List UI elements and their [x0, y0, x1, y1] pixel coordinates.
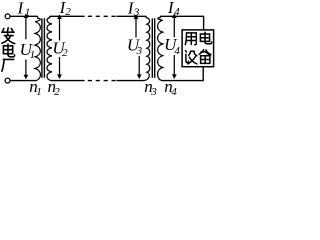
terminal circle top-left [5, 14, 10, 19]
svg-text:4: 4 [174, 45, 180, 57]
power plant text 电 (drawn strokes) [3, 44, 14, 57]
voltage arrow U3 head up [134, 14, 139, 19]
voltage arrow U4 head up [172, 13, 177, 18]
voltage arrow U2 head up [57, 14, 62, 19]
svg-text:3: 3 [136, 45, 143, 57]
transformer T1 primary coil n1 [35, 16, 40, 80]
wire top-left from terminal to transformer T1 primary [10, 15, 38, 17]
voltage arrow U1 head up [24, 13, 29, 18]
load text 设 (drawn strokes) [186, 51, 197, 64]
transformer T2 core line left [151, 18, 153, 78]
wire bottom secondary solid segment [51, 80, 84, 82]
voltage arrow U3 head down [137, 74, 142, 79]
wire top secondary solid segment [50, 15, 85, 17]
power plant text 厂 (drawn strokes) [2, 59, 14, 71]
transformer T2 secondary coil n4 [158, 16, 163, 80]
voltage arrow U1 line upper [25, 16, 27, 40]
svg-text:1: 1 [30, 49, 35, 61]
wire bottom from T2 secondary to load [162, 67, 203, 81]
wire top from T2 secondary to load [160, 16, 203, 30]
voltage arrow U4 line upper [173, 17, 175, 38]
wire top transmission dashed segment [88, 15, 116, 17]
load text 用 (drawn strokes) [185, 33, 196, 45]
load text 电 (drawn strokes) [200, 32, 211, 44]
voltage arrow U2 head down [57, 74, 62, 79]
power plant text 发 (drawn strokes) [2, 28, 15, 44]
svg-text:2: 2 [54, 86, 60, 96]
svg-text:1: 1 [25, 6, 31, 18]
svg-text:I: I [17, 0, 25, 17]
svg-text:1: 1 [36, 86, 42, 96]
svg-text:2: 2 [62, 47, 68, 59]
load text 备 (drawn strokes) [199, 50, 211, 64]
voltage arrow U2 line upper [59, 17, 61, 41]
transformer T2 primary coil n3 [144, 16, 150, 80]
wire top solid segment to transformer T2 [117, 15, 147, 17]
svg-text:2: 2 [65, 6, 71, 18]
voltage arrow U1 line lower [25, 60, 27, 76]
voltage arrow U4 line lower [173, 55, 175, 75]
voltage arrow U2 line lower [59, 57, 61, 75]
transformer T1 core line right [43, 18, 45, 78]
load box outline [182, 30, 214, 67]
svg-text:4: 4 [171, 86, 177, 96]
voltage arrow U3 line lower [138, 56, 140, 75]
svg-text:4: 4 [174, 6, 180, 18]
terminal circle bottom-left [5, 78, 10, 83]
voltage arrow U1 head down [24, 75, 29, 80]
transformer T1 secondary coil n2 [47, 16, 52, 80]
voltage arrow U4 head down [172, 74, 177, 79]
wire bottom transmission dashed segment [88, 80, 116, 82]
svg-text:3: 3 [150, 86, 157, 96]
svg-text:3: 3 [133, 6, 140, 18]
wire bottom solid segment to transformer T2 [117, 80, 144, 82]
transformer T1 core line left [41, 18, 43, 78]
transformer T2 core line right [154, 18, 156, 78]
wire bottom-left from terminal to transformer T1 primary [10, 80, 36, 82]
voltage arrow U3 line upper [135, 17, 137, 38]
